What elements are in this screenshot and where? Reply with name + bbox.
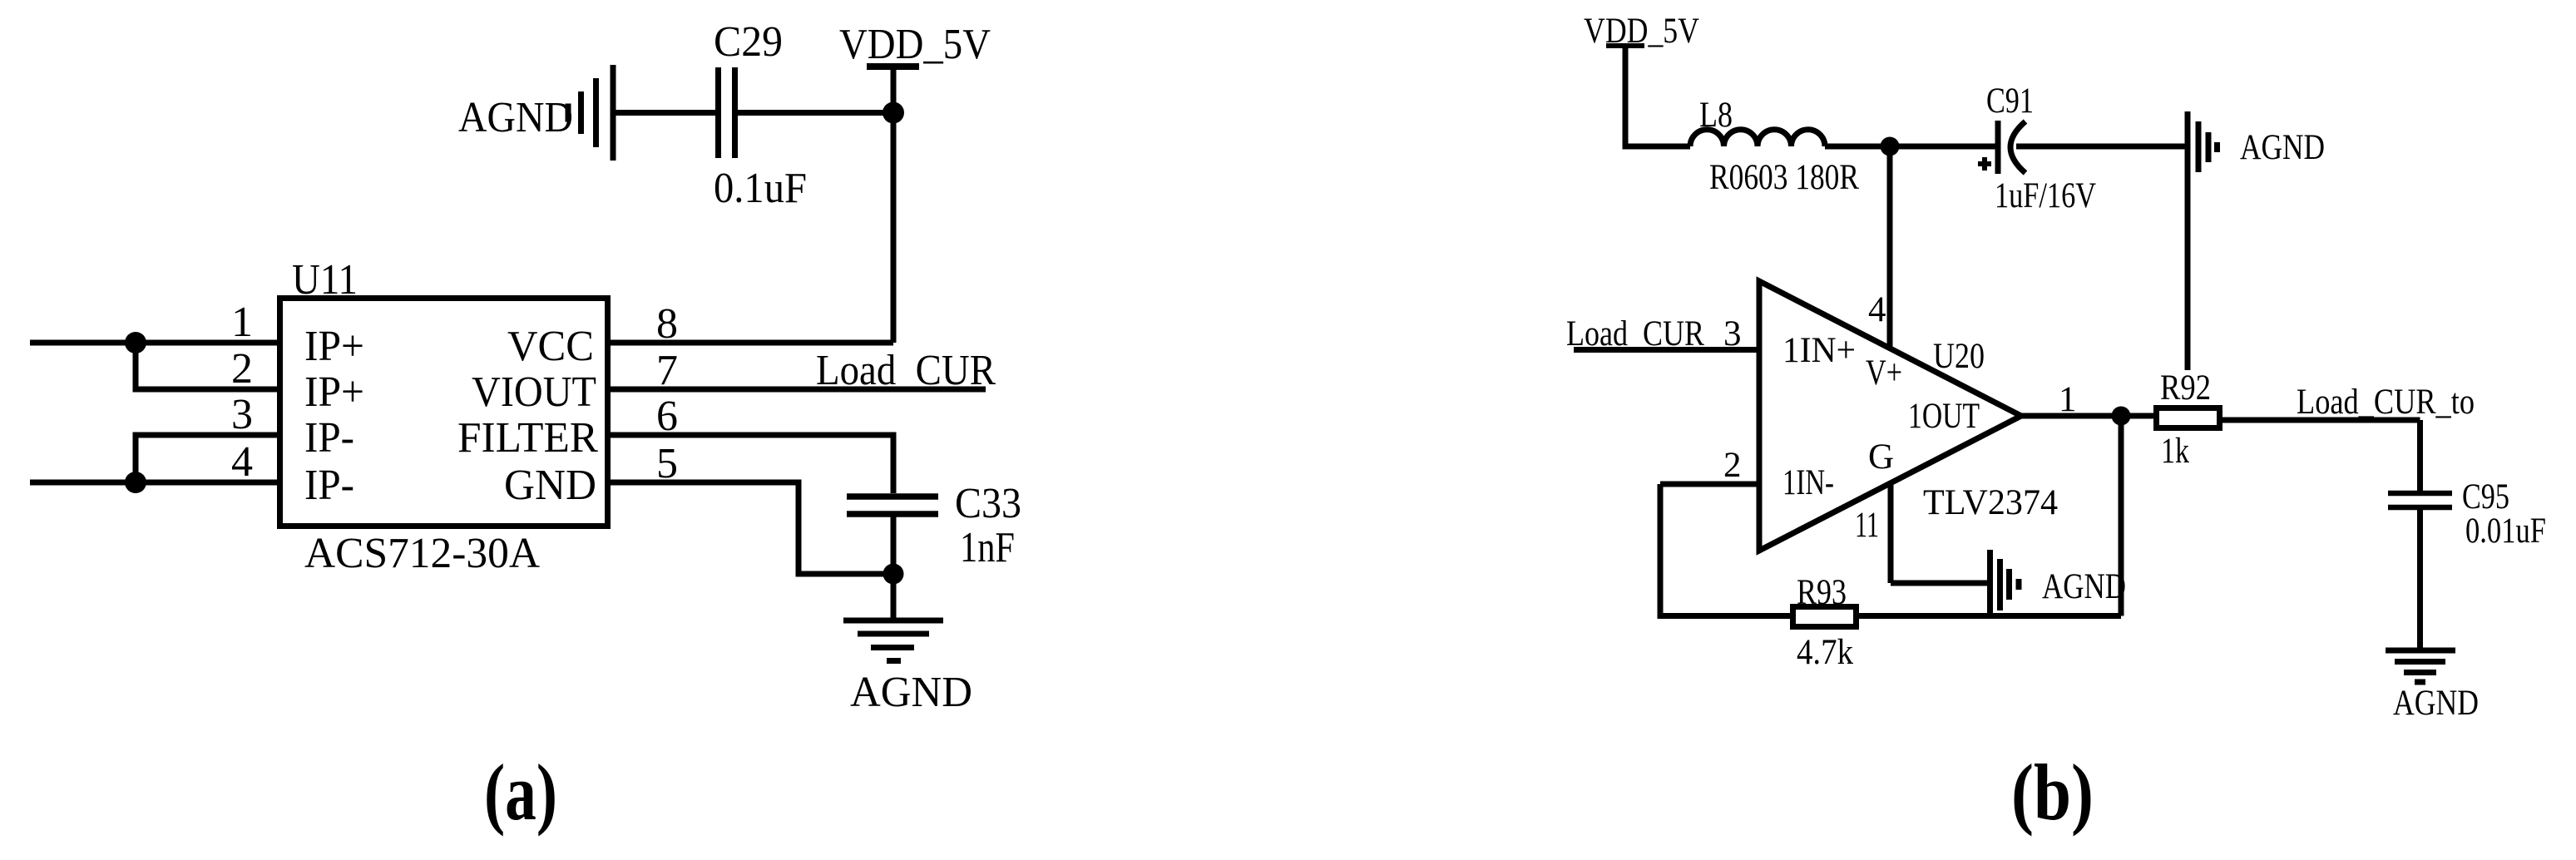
wire R92 to Load_CUR_to (2222, 418, 2420, 423)
ground AGND (a-bottom) bar 2 (858, 631, 929, 637)
svg-text:IP-: IP- (304, 462, 354, 509)
svg-text:(b): (b) (2011, 748, 2094, 837)
wire C95 to ground (2417, 510, 2423, 650)
ground AGND (a-top) small bar (578, 91, 584, 134)
svg-text:1: 1 (2059, 380, 2077, 419)
ground AGND (b-top) mid bar (2196, 121, 2202, 172)
svg-text:4: 4 (1868, 290, 1886, 329)
svg-text:IP-: IP- (304, 414, 354, 462)
svg-text:R92: R92 (2160, 368, 2211, 408)
wire feedback vertical (2119, 416, 2124, 616)
svg-text:1OUT: 1OUT (1908, 397, 1980, 436)
wire pin 7 VIOUT net Load_CUR (611, 387, 986, 393)
wire input net Load_CUR_3 (1574, 347, 1759, 353)
wire AGND to C29 (616, 110, 715, 116)
svg-text:1nF: 1nF (960, 524, 1015, 571)
ground AGND (b-bottom) bar 2 (2395, 659, 2445, 665)
wire pin 11 to AGND (1891, 581, 1988, 586)
svg-text:AGND: AGND (2240, 128, 2325, 167)
svg-text:G: G (1868, 437, 1894, 477)
node junction L8/C91/V+ (1881, 137, 1900, 156)
svg-text:VCC: VCC (507, 323, 594, 370)
node junction pins 3-4 (125, 472, 146, 493)
wire jog to pin 3 IP- (136, 435, 280, 482)
capacitor C33 bottom plate (847, 511, 938, 517)
svg-text:4: 4 (231, 438, 253, 486)
svg-text:1IN-: 1IN- (1782, 463, 1834, 502)
wire inductor to C91 (1825, 144, 1995, 150)
ground AGND (b-top) big bar / stub (2185, 111, 2191, 370)
capacitor C91 plus sign v (1982, 157, 1987, 171)
svg-text:R0603 180R: R0603 180R (1709, 158, 1859, 197)
power VDD_5V bar (b) (1606, 43, 1644, 48)
ground AGND (a-top) mid bar (593, 78, 599, 147)
svg-text:AGND: AGND (2042, 567, 2126, 606)
wire op-amp output pin 1 (2021, 413, 2155, 419)
capacitor C91 straight plate (1995, 121, 2001, 174)
ground AGND (b-mid) tiny bar (2016, 579, 2022, 590)
svg-text:TLV2374: TLV2374 (1923, 483, 2058, 522)
wire C91 to AGND (2016, 144, 2188, 150)
svg-text:U11: U11 (292, 256, 358, 304)
ground AGND (b-top) tiny bar (2214, 142, 2220, 152)
svg-text:Load_CUR: Load_CUR (1566, 314, 1704, 353)
wire VDD_5V vertical (891, 67, 897, 343)
ground AGND (a-bottom) bar 1 (843, 618, 943, 624)
svg-text:2: 2 (1723, 446, 1742, 485)
svg-text:AGND: AGND (458, 94, 573, 141)
svg-text:L8: L8 (1699, 96, 1733, 135)
ground AGND (b-bottom) bar 4 (2415, 680, 2425, 685)
wire C33 bottom to node (891, 516, 897, 574)
resistor R93 (1793, 607, 1857, 627)
ground AGND (a-bottom) bar 4 (887, 658, 901, 664)
svg-text:VIOUT: VIOUT (472, 368, 596, 416)
svg-text:ACS712-30A: ACS712-30A (304, 530, 540, 577)
svg-text:3: 3 (231, 391, 253, 438)
ground AGND (a-bottom) bar 3 (871, 645, 914, 650)
IC U11 ACS712-30A body (280, 299, 608, 526)
svg-text:1IN+: 1IN+ (1782, 331, 1856, 370)
ground AGND (b-mid) small bar (2006, 569, 2012, 600)
wire node to ground (891, 574, 897, 620)
ground AGND (b-bottom) bar 1 (2386, 648, 2455, 654)
capacitor C29 left plate (715, 67, 721, 158)
svg-text:R93: R93 (1797, 573, 1847, 612)
svg-text:C33: C33 (955, 480, 1021, 527)
svg-text:1: 1 (231, 299, 253, 346)
ground AGND (b-bottom) bar 3 (2404, 670, 2436, 675)
wire pin 11 G down (1888, 483, 1894, 583)
node junction pins 1-2 (125, 332, 146, 353)
svg-text:GND: GND (504, 462, 596, 509)
svg-text:IP+: IP+ (304, 323, 364, 370)
svg-text:C29: C29 (714, 18, 783, 66)
svg-text:2: 2 (231, 345, 253, 393)
svg-text:V+: V+ (1866, 353, 1902, 393)
wire jog to pin 2 IP+ (136, 343, 280, 389)
wire pin 8 VCC to VDD_5V (611, 340, 893, 346)
svg-text:1uF/16V: 1uF/16V (1995, 176, 2096, 215)
svg-text:11: 11 (1855, 506, 1879, 545)
ground AGND (b-top) small bar (2206, 132, 2212, 162)
ground AGND (b-mid) mid bar (1997, 559, 2003, 610)
wire feedback from pin 2 (1660, 484, 1790, 616)
wire VDD_5V to inductor (1625, 46, 1690, 146)
ground AGND (a-top) big bar (611, 65, 616, 161)
wire pin 4 V+ (1887, 146, 1893, 348)
wire R93 to output node (1859, 613, 2121, 619)
svg-text:C91: C91 (1986, 82, 2034, 121)
node junction GND/C33/AGND (883, 564, 904, 585)
capacitor C29 right plate (732, 67, 738, 158)
svg-text:Load_CUR_to: Load_CUR_to (2297, 383, 2475, 422)
op-amp U20 TLV2374 triangle (1759, 281, 2021, 551)
svg-text:4.7k: 4.7k (1797, 633, 1853, 672)
wire pin 5 GND to AGND node (611, 482, 893, 574)
svg-text:AGND: AGND (850, 669, 972, 716)
ground AGND (a-top) tiny bar (566, 104, 571, 122)
svg-text:VDD_5V: VDD_5V (839, 21, 991, 68)
capacitor C91 plus sign h (1978, 161, 1991, 166)
svg-text:IP+: IP+ (304, 368, 364, 416)
node junction VDD/C29 (883, 102, 904, 124)
wire input to pin 4 IP- (30, 480, 280, 486)
ground AGND (b-mid) big bar (1987, 550, 1993, 616)
wire input to pin 1 IP+ (30, 340, 280, 346)
svg-text:3: 3 (1723, 314, 1742, 353)
svg-text:1k: 1k (2161, 432, 2189, 471)
wire pin 6 FILTER to C33 (611, 435, 893, 493)
svg-text:(a): (a) (484, 748, 557, 837)
power VDD_5V bar (a) (867, 63, 919, 70)
resistor R92 (2157, 408, 2220, 428)
capacitor C95 top plate (2388, 491, 2452, 497)
inductor L8 (1690, 130, 1825, 146)
svg-text:FILTER: FILTER (457, 414, 598, 462)
svg-text:Load_CUR: Load_CUR (816, 347, 996, 394)
svg-text:0.01uF: 0.01uF (2465, 512, 2546, 551)
capacitor C95 bottom plate (2388, 505, 2452, 511)
svg-text:0.1uF: 0.1uF (714, 165, 807, 212)
svg-text:U20: U20 (1933, 337, 1985, 376)
wire pin 2 1IN- (1660, 482, 1759, 487)
wire C29 to VDD node (738, 110, 893, 116)
wire down to C95 (2417, 420, 2423, 491)
svg-text:AGND: AGND (2393, 684, 2479, 723)
capacitor C91 curved plate (2010, 121, 2025, 173)
svg-text:C95: C95 (2462, 477, 2509, 516)
capacitor C33 top plate (847, 493, 938, 500)
node junction output/R92/feedback (2112, 407, 2131, 426)
